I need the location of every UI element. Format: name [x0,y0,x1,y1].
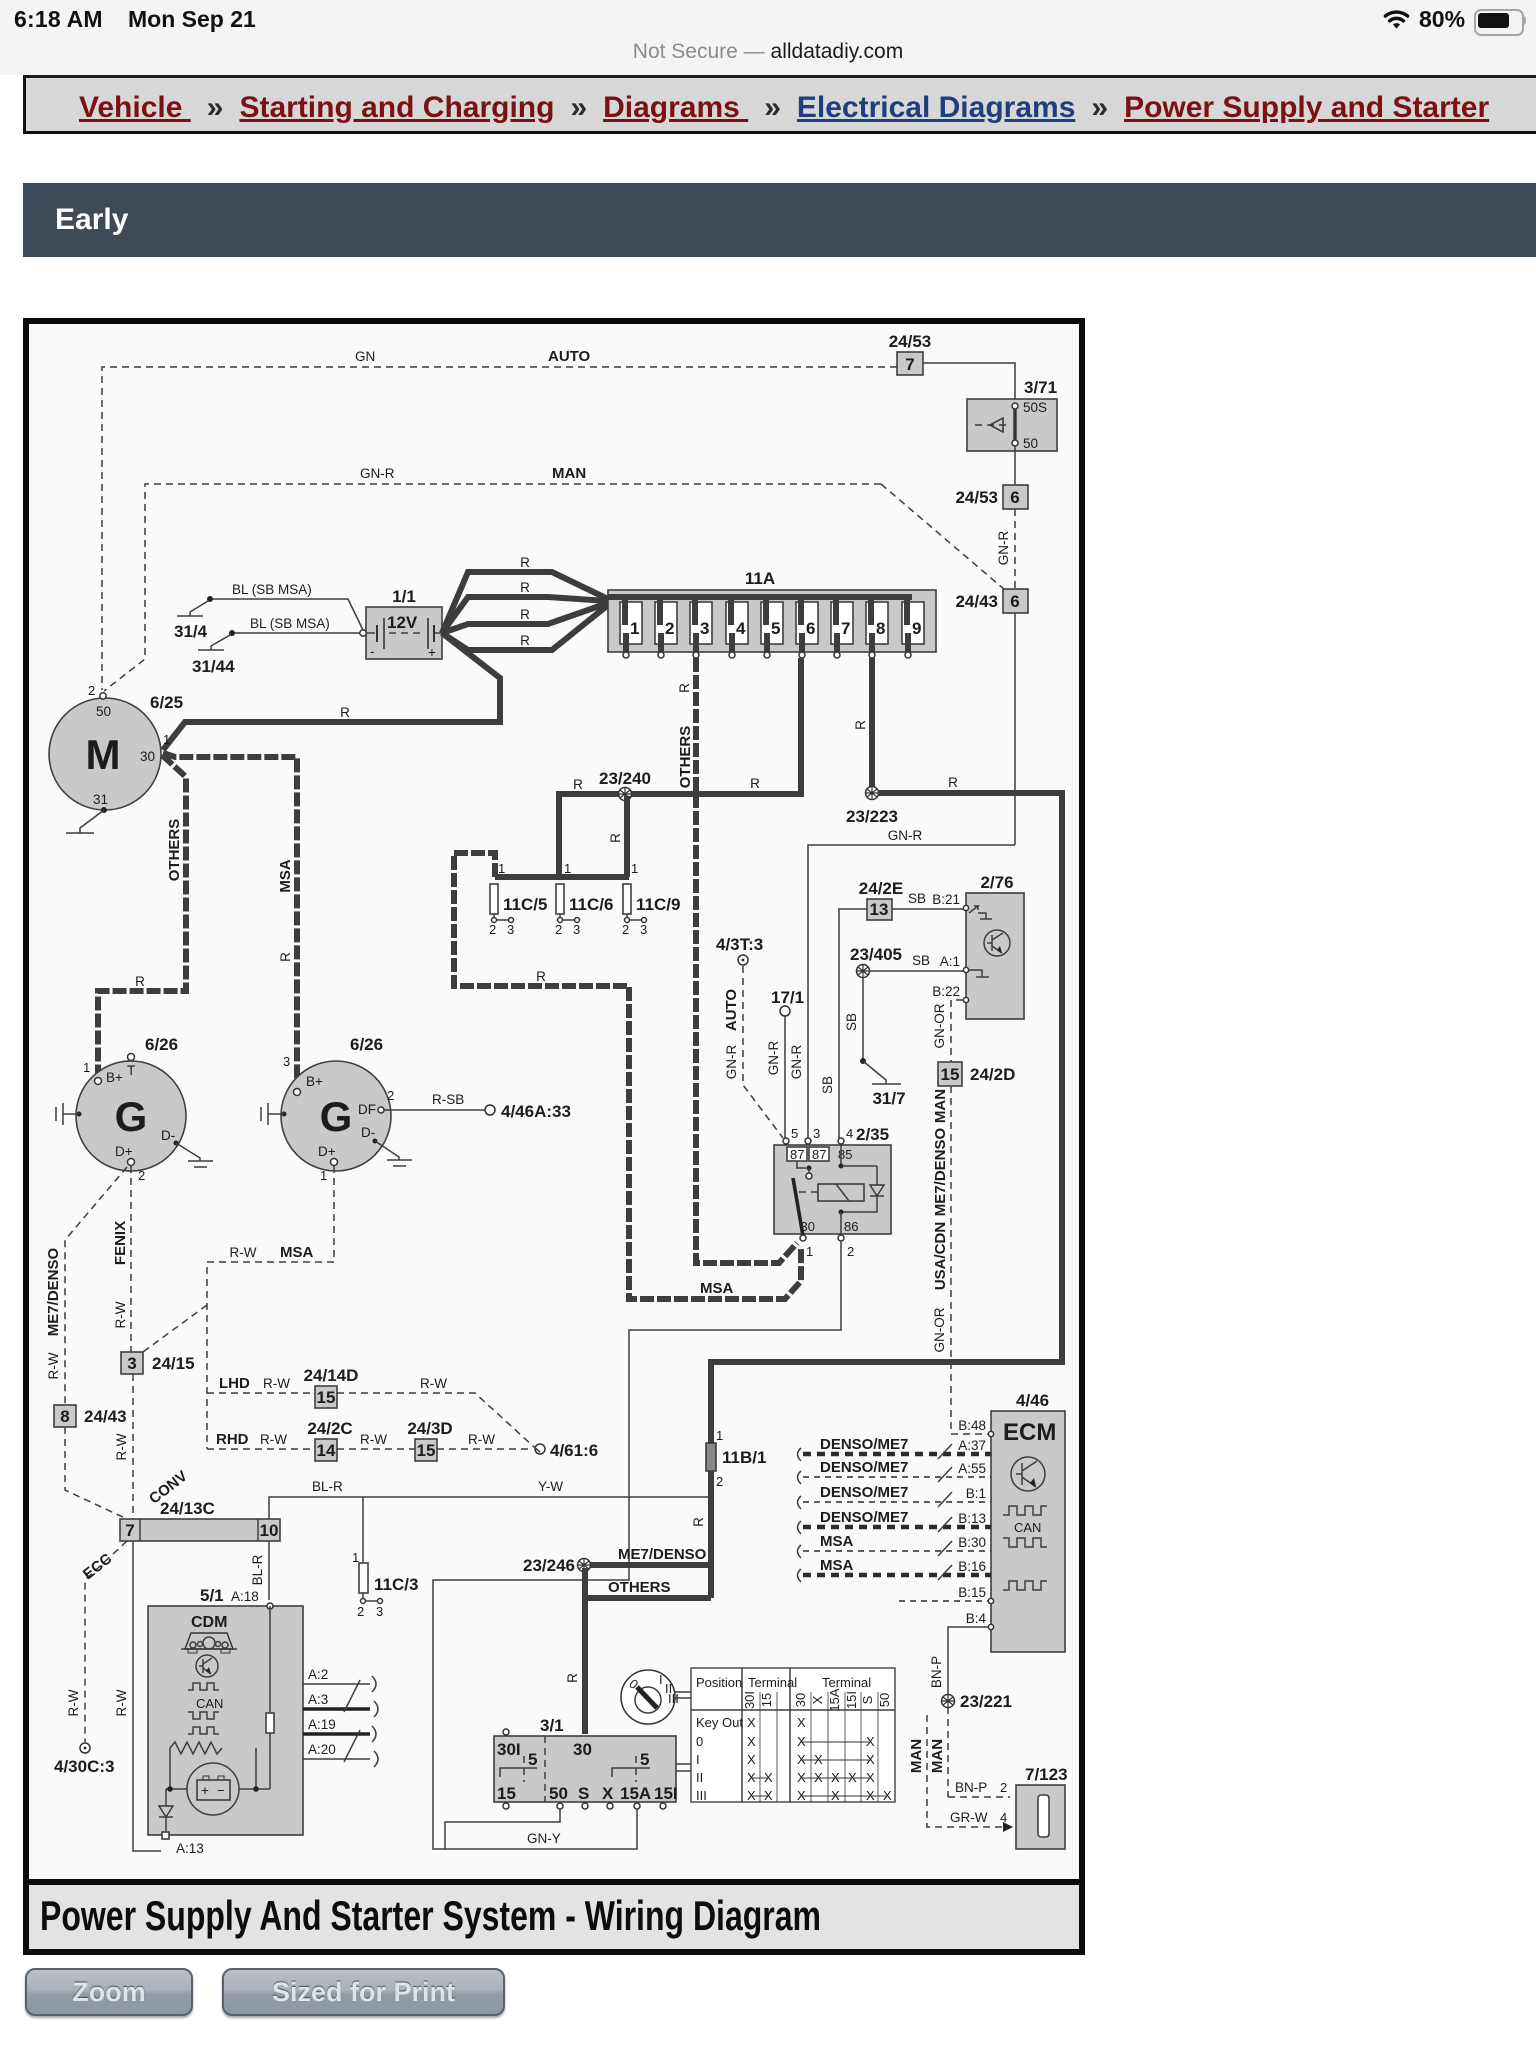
ground 31/7 [872,1084,906,1108]
svg-text:GR-W: GR-W [950,1810,988,1825]
svg-text:X: X [814,1752,823,1767]
CDM CAN pins A:2 A:3 A:19 A:20 [303,1667,378,1767]
wire ECC dashed from 24/13C to 4/30C:3 [66,1541,127,1742]
svg-text:AUTO: AUTO [723,989,740,1032]
svg-text:2: 2 [88,683,95,698]
svg-text:B:21: B:21 [932,892,960,907]
svg-text:10: 10 [260,1521,279,1540]
svg-text:30: 30 [793,1693,808,1707]
svg-text:4/46A:33: 4/46A:33 [501,1102,571,1121]
fuse box 11A [608,569,936,652]
svg-text:9: 9 [912,619,921,638]
svg-text:15: 15 [417,1441,436,1460]
svg-text:CAN: CAN [1014,1520,1041,1535]
svg-text:B:13: B:13 [958,1511,986,1526]
wire BL (SB MSA) upper [213,582,363,630]
svg-text:B:4: B:4 [966,1611,987,1626]
svg-text:FENIX: FENIX [112,1221,129,1265]
svg-text:D-: D- [161,1128,175,1143]
svg-text:R: R [135,974,145,989]
svg-text:MAN: MAN [908,1739,925,1773]
svg-text:15: 15 [759,1693,774,1707]
fuse 11B/1 [706,1428,766,1489]
wire CONV dashed 24/43 to 24/13C [65,1427,191,1519]
svg-text:RHD: RHD [216,1431,249,1448]
relay 2/35 [774,1125,891,1259]
svg-text:2: 2 [387,1088,394,1103]
svg-text:MAN: MAN [929,1739,946,1773]
wire MSA to B:30 [798,1533,992,1558]
wire BL-R / Y-W rail [269,1471,711,1519]
wire SB 24/2E to B:21 [892,891,963,909]
svg-text:GN-R: GN-R [724,1045,739,1080]
svg-text:X: X [797,1752,806,1767]
svg-text:24/13C: 24/13C [160,1499,215,1518]
svg-text:1: 1 [83,1060,90,1075]
wire LHD row dashed [207,1375,533,1446]
svg-text:R-W: R-W [263,1376,290,1391]
svg-text:2: 2 [847,1244,854,1259]
svg-text:X: X [747,1788,756,1803]
svg-text:DENSO/ME7: DENSO/ME7 [820,1484,908,1501]
svg-text:B+: B+ [306,1074,323,1089]
svg-text:4: 4 [846,1126,853,1141]
svg-text:LHD: LHD [219,1375,250,1392]
svg-text:6/26: 6/26 [350,1035,383,1054]
svg-text:24/43: 24/43 [955,592,998,611]
svg-text:X: X [883,1788,892,1803]
svg-text:5: 5 [771,619,780,638]
wire MSA dashed G2 D+ [143,1166,334,1449]
fuse 2 in 11A [655,597,677,658]
svg-text:D+: D+ [318,1144,336,1159]
wire GN-R MAN dashed [104,465,1012,691]
wire SB 23/405 to ground 31/7 [844,977,886,1084]
svg-text:24/2D: 24/2D [970,1065,1015,1084]
svg-text:30: 30 [573,1740,592,1759]
connector 24/43 pin 6 [955,589,1028,613]
svg-text:X: X [797,1715,806,1730]
svg-text:31/7: 31/7 [872,1089,905,1108]
svg-text:BL-R: BL-R [312,1479,343,1494]
svg-text:30: 30 [801,1219,815,1234]
svg-text:24/53: 24/53 [889,332,932,351]
svg-text:R-W: R-W [468,1432,495,1447]
control module CDM 5/1 [148,1586,303,1856]
svg-text:50: 50 [96,704,111,719]
svg-text:SB: SB [844,1013,859,1031]
wire fuse 8 to 23/223 [853,658,872,790]
svg-text:R: R [278,952,293,962]
connector 24/53 pin 7 [889,332,932,375]
svg-text:30I: 30I [497,1740,521,1759]
svg-text:+: + [201,1783,209,1798]
svg-text:A:37: A:37 [958,1438,986,1453]
svg-text:R: R [691,1517,706,1527]
ECM 4/46 [958,1391,1065,1652]
svg-text:X: X [797,1770,806,1785]
starter motor 6/25 [49,683,183,833]
svg-text:R: R [565,1673,580,1683]
ignition position table [691,1668,895,1803]
wire DENSO/ME7 to A:37 [798,1436,992,1461]
svg-text:ME7/DENSO: ME7/DENSO [618,1546,707,1563]
svg-text:III: III [696,1788,707,1803]
fuse 11C/3 [352,1497,418,1619]
svg-text:R-W: R-W [113,1301,128,1328]
svg-text:R: R [750,776,760,791]
connector 4/3T:3 [716,935,763,965]
svg-text:X: X [866,1770,875,1785]
svg-text:23/405: 23/405 [850,945,902,964]
svg-text:BL (SB MSA): BL (SB MSA) [250,616,330,631]
svg-text:A:1: A:1 [940,954,960,969]
connector 24/3D pin 15 [407,1419,452,1461]
svg-text:15A: 15A [827,1688,842,1711]
svg-text:R: R [520,580,530,595]
svg-text:12V: 12V [387,613,418,632]
svg-text:ME7/DENSO: ME7/DENSO [45,1247,62,1336]
svg-text:S: S [578,1784,589,1803]
svg-text:OTHERS: OTHERS [608,1579,671,1596]
svg-text:R-W: R-W [114,1433,129,1460]
wire FENIX dashed G1 D+ to 24/15 [112,1166,131,1352]
junction 23/221 [942,1692,1013,1711]
svg-text:1: 1 [631,861,638,876]
svg-text:7: 7 [905,355,914,374]
svg-text:MSA: MSA [277,859,294,893]
svg-text:R-W: R-W [230,1245,257,1260]
wire ME7/DENSO dashed to 24/43 pin 8 [45,1167,127,1405]
svg-text:2: 2 [489,922,496,937]
svg-text:Y-W: Y-W [538,1479,563,1494]
svg-text:USA/CDN: USA/CDN [932,1222,949,1290]
svg-text:1: 1 [352,1550,359,1565]
svg-text:3: 3 [376,1604,383,1619]
fuse 4 in 11A [726,597,748,658]
wire M to OTHERS generator rail [98,755,186,1077]
wire MAN dashed lines to 7/123 [908,1707,1013,1832]
svg-text:X: X [831,1788,840,1803]
svg-text:14: 14 [317,1441,336,1460]
svg-text:D-: D- [361,1125,375,1140]
svg-text:X: X [810,1695,825,1704]
svg-text:11C/6: 11C/6 [569,895,613,914]
svg-text:3: 3 [573,922,580,937]
svg-text:3/71: 3/71 [1024,378,1057,397]
svg-text:2: 2 [1000,1780,1007,1795]
svg-text:6: 6 [1010,592,1019,611]
svg-text:X: X [831,1770,840,1785]
svg-text:DENSO/ME7: DENSO/ME7 [820,1459,908,1476]
svg-text:2: 2 [622,922,629,937]
svg-text:B:48: B:48 [958,1418,986,1433]
svg-text:6: 6 [1010,488,1019,507]
svg-text:OTHERS: OTHERS [166,819,183,882]
svg-text:5/1: 5/1 [200,1586,224,1605]
svg-text:R: R [520,633,530,648]
svg-text:3/1: 3/1 [540,1716,564,1735]
svg-text:30: 30 [140,749,155,764]
svg-text:G: G [320,1093,353,1140]
wire 11B/1 down to 23/246 [691,1471,711,1598]
svg-text:X: X [866,1788,875,1803]
svg-text:B:15: B:15 [958,1585,986,1600]
svg-text:R: R [520,555,530,570]
wire GN-R rail to relay coil [789,828,1015,1139]
wire AUTO dashed to relay pin 5 [723,966,783,1138]
svg-text:T: T [127,1063,135,1078]
svg-text:BL-R: BL-R [250,1554,265,1585]
svg-text:7/123: 7/123 [1025,1765,1068,1784]
svg-text:MAN: MAN [552,465,586,482]
svg-text:A:3: A:3 [308,1692,328,1707]
connector rail 24/13C [120,1499,280,1541]
svg-text:X: X [747,1752,756,1767]
svg-text:R: R [608,833,623,843]
svg-text:R: R [340,705,350,720]
svg-text:CAN: CAN [196,1696,223,1711]
ground switch 31/4 [174,596,213,641]
svg-text:1: 1 [320,1168,327,1183]
fuse 7 in 11A [831,597,853,658]
fuse 9 in 11A [902,597,924,658]
svg-text:GN-R: GN-R [360,466,395,481]
wire GN-R dashed to 24/43 pin 6 [996,509,1015,589]
svg-text:4: 4 [736,619,746,638]
svg-text:A:13: A:13 [176,1841,204,1856]
svg-text:11C/5: 11C/5 [503,895,547,914]
wire R rail 23/223 to ECM feed (thick) [711,775,1062,1443]
svg-text:GN-R: GN-R [996,531,1011,566]
wire ignition pin 50 stub [445,1809,560,1849]
svg-text:2: 2 [716,1474,723,1489]
svg-text:87: 87 [812,1147,826,1162]
svg-text:6: 6 [806,619,815,638]
svg-text:7: 7 [841,619,850,638]
svg-text:11A: 11A [745,569,775,588]
wire SB 24/2E to relay pin 4 [820,909,867,1139]
svg-text:MSA: MSA [820,1533,854,1550]
svg-text:GN-R: GN-R [789,1045,804,1080]
connector 4/61:6 [533,1441,598,1460]
svg-text:R: R [573,777,583,792]
svg-text:BL (SB MSA): BL (SB MSA) [232,582,312,597]
svg-text:MSA: MSA [820,1557,854,1574]
svg-text:5: 5 [640,1750,649,1769]
svg-text:I: I [659,1672,663,1687]
svg-text:X: X [747,1770,756,1785]
svg-text:24/43: 24/43 [84,1407,127,1426]
junction 23/246 [523,1556,591,1575]
svg-text:Terminal: Terminal [748,1675,797,1690]
svg-text:24/53: 24/53 [955,488,998,507]
svg-text:24/15: 24/15 [152,1354,195,1373]
svg-text:2: 2 [138,1168,145,1183]
svg-text:R: R [948,775,958,790]
connector 24/14D pin 15 [304,1366,359,1408]
svg-text:31/4: 31/4 [174,622,208,641]
svg-text:GN-R: GN-R [888,828,923,843]
svg-text:R-W: R-W [360,1432,387,1447]
connector 24/15 pin 3 [121,1352,195,1374]
svg-text:II: II [696,1770,703,1785]
ground switch 31/44 [192,630,235,676]
wire ME7/DENSO branch to 23/246 [589,1546,711,1565]
wire GN AUTO dashed [102,348,897,690]
wire R-W solid 24/13C pin 7 to CDM A:13 [114,1541,161,1851]
svg-text:S: S [860,1695,875,1704]
fuse 3 in 11A [690,597,712,658]
svg-text:BN-P: BN-P [929,1656,944,1688]
svg-text:R-W: R-W [66,1689,81,1716]
svg-text:M: M [86,731,121,778]
svg-text:GN-Y: GN-Y [527,1831,561,1846]
connector 24/2C pin 14 [307,1419,352,1461]
connector 24/43 pin 8 [54,1405,127,1427]
wire BL-R 24/13C pin 10 to CDM A:18 [250,1541,269,1600]
svg-text:R: R [536,969,546,984]
ignition switch 3/1 [494,1716,691,1809]
svg-text:11B/1: 11B/1 [722,1448,766,1467]
svg-text:AUTO: AUTO [548,348,591,365]
svg-text:X: X [797,1788,806,1803]
svg-text:86: 86 [844,1219,858,1234]
svg-text:CDM: CDM [191,1614,227,1631]
svg-text:2: 2 [555,922,562,937]
wire B:15 dashed stub [899,1600,988,1602]
svg-text:15: 15 [317,1388,336,1407]
battery 1/1 [360,587,442,660]
svg-text:B:1: B:1 [966,1486,986,1501]
relay 3/71 [967,378,1057,451]
generator 6/26 left [56,1035,213,1183]
wire battery fan R x4 to fusebox [442,555,608,650]
svg-text:R: R [677,683,692,693]
svg-text:GN-OR: GN-OR [932,1003,947,1048]
svg-text:3: 3 [507,922,514,937]
svg-text:A:20: A:20 [308,1742,336,1757]
svg-text:-: - [370,644,375,659]
svg-text:17/1: 17/1 [771,988,804,1007]
svg-text:4/61:6: 4/61:6 [550,1441,598,1460]
wire to relay 3/71 [923,363,1015,399]
wire 11C bus to MSA relay feed (dashed thick) [454,853,801,1299]
svg-text:1: 1 [564,861,571,876]
svg-text:4/30C:3: 4/30C:3 [54,1757,114,1776]
svg-text:3: 3 [640,922,647,937]
wire R-W dashed 24/15 to 24/13C [114,1374,133,1519]
svg-text:R-W: R-W [114,1689,129,1716]
svg-text:2/35: 2/35 [856,1125,889,1144]
svg-text:X: X [764,1788,773,1803]
svg-text:+: + [428,645,436,660]
connector 24/2E pin 13 [859,879,903,920]
svg-text:I: I [696,1752,700,1767]
svg-text:B:22: B:22 [932,984,960,999]
svg-text:15: 15 [497,1784,516,1803]
wire battery to starter motor R [163,633,500,750]
fuse 1 in 11A [620,597,642,658]
svg-text:X: X [848,1770,857,1785]
svg-text:DENSO/ME7: DENSO/ME7 [820,1436,908,1453]
connector 4/46A:33 [485,1102,571,1121]
svg-text:50: 50 [549,1784,568,1803]
connector 17/1 [771,988,804,1016]
svg-text:Position: Position [696,1675,742,1690]
connector 24/2D pin 15 [938,1062,1015,1086]
svg-text:1: 1 [630,619,639,638]
svg-text:DF: DF [358,1102,376,1117]
svg-text:1: 1 [498,861,505,876]
svg-text:A:18: A:18 [231,1589,259,1604]
svg-text:2/76: 2/76 [980,873,1013,892]
svg-text:24/3D: 24/3D [407,1419,452,1438]
junction 23/223 [846,787,898,827]
wire B:48 dashed stub [951,1433,988,1435]
svg-text:23/221: 23/221 [960,1692,1012,1711]
svg-text:X: X [814,1770,823,1785]
svg-text:X: X [866,1752,875,1767]
svg-text:R-W: R-W [420,1376,447,1391]
svg-text:X: X [797,1734,806,1749]
svg-text:11C/9: 11C/9 [636,895,680,914]
wire DENSO/ME7 to B:13 [798,1509,992,1534]
svg-text:2: 2 [357,1604,364,1619]
svg-text:MSA: MSA [280,1244,314,1261]
svg-text:15: 15 [941,1065,960,1084]
svg-text:7: 7 [125,1521,134,1540]
svg-text:5: 5 [791,1126,798,1141]
svg-text:A:19: A:19 [308,1717,336,1732]
svg-text:85: 85 [838,1147,852,1162]
control unit 2/76 [932,873,1024,1019]
svg-text:24/14D: 24/14D [304,1366,359,1385]
wire 23/240 down to 11C/9 [608,796,627,877]
svg-text:R-SB: R-SB [432,1092,464,1107]
svg-text:BN-P: BN-P [955,1780,987,1795]
junction 23/240 [599,769,651,801]
svg-text:31: 31 [93,792,108,807]
connector 24/53 pin 6 [955,485,1028,509]
svg-text:SB: SB [820,1076,835,1094]
svg-text:3: 3 [700,619,709,638]
svg-text:X: X [602,1784,614,1803]
svg-text:D+: D+ [115,1144,133,1159]
svg-text:SB: SB [912,953,930,968]
junction 23/405 [850,945,902,978]
fuse 11C/9 [622,884,680,937]
svg-text:6/25: 6/25 [150,693,183,712]
svg-text:GN: GN [355,349,375,364]
svg-text:8: 8 [60,1407,69,1426]
svg-text:15I: 15I [654,1784,678,1803]
svg-text:0: 0 [696,1734,703,1749]
svg-text:Key Out: Key Out [696,1715,743,1730]
wire B:4 to 23/221 BN-P [929,1627,988,1694]
svg-text:MSA: MSA [700,1280,734,1297]
svg-text:23/240: 23/240 [599,769,651,788]
svg-text:15A: 15A [620,1784,651,1803]
svg-text:−: − [217,1783,225,1798]
svg-text:OTHERS: OTHERS [677,726,694,789]
wire M to battery thick (drawn above) / wire M to MSA rail [163,753,297,1090]
svg-text:Terminal: Terminal [822,1675,871,1690]
svg-text:13: 13 [870,900,889,919]
svg-text:1: 1 [163,732,170,747]
svg-text:GN-OR: GN-OR [932,1307,947,1352]
wire DENSO/ME7 to A:55 [798,1459,992,1484]
